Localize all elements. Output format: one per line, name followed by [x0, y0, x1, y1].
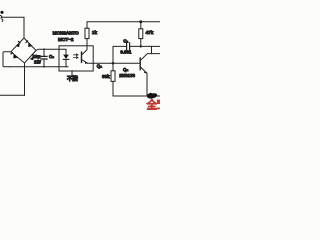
diode D2 (top-right leg)	[25, 40, 32, 47]
resistor R1 1k	[85, 28, 89, 38]
wire: 68k from base line down	[112, 63, 114, 71]
svg-text:C₁: C₁	[123, 39, 128, 44]
svg-text:10μ: 10μ	[33, 54, 41, 59]
svg-text:68k: 68k	[102, 74, 110, 79]
optocoupler U1 box	[59, 46, 93, 71]
wire: rail down to R3 47k	[140, 22, 142, 29]
wire: bridge bottom vertex down to AC2 line	[24, 63, 26, 95]
pin stub below box (unconnected)	[71, 71, 73, 75]
svg-text:不接: 不接	[67, 75, 78, 83]
wire: left vertex loop to ground rail	[3, 52, 11, 67]
diode D1 (top-left leg)	[16, 41, 21, 48]
wire: AC terminal to bridge top	[2, 17, 25, 38]
node: emitter / bottom rail blob	[147, 92, 158, 99]
node: 47k / C1 junction	[140, 45, 142, 47]
svg-text:1k: 1k	[92, 30, 98, 35]
wire: R3 bottom to C1 line	[140, 39, 142, 47]
transistor Q2	[140, 54, 160, 96]
wire: R1 top to V+ rail	[87, 22, 160, 28]
wire: AC2 bottom-left line	[0, 94, 25, 96]
wire: collector tie to 47k/C1 line	[151, 46, 153, 53]
svg-text:1W: 1W	[34, 60, 42, 65]
AC input terminal (left edge)	[0, 11, 3, 22]
node: base line junction	[112, 62, 115, 65]
svg-text:C₂: C₂	[49, 54, 54, 59]
diode D3 (bottom-left leg)	[10, 52, 18, 59]
svg-text:2N3133: 2N3133	[119, 73, 135, 78]
LED inside optocoupler	[59, 49, 69, 66]
svg-text:Q₂: Q₂	[123, 67, 128, 72]
capacitor C1 0.001	[113, 43, 160, 63]
node: rail junction for 47k	[139, 20, 142, 23]
wire: Q1 emitter line to Q2 base	[88, 62, 140, 64]
light arrows	[74, 54, 79, 59]
wire: R2 bottom to bottom rail	[113, 81, 160, 96]
resistor R2 68k	[111, 71, 115, 82]
phototransistor Q1	[82, 46, 88, 64]
svg-text:Q₁: Q₁	[97, 64, 102, 69]
ground rail (DC minus) y=66.7	[10, 66, 68, 68]
wire: Q1 collector up to R1	[86, 39, 88, 46]
red watermark stamp	[146, 99, 161, 112]
capacitor C2 10u	[41, 48, 47, 67]
svg-text:0.001: 0.001	[120, 49, 132, 54]
bridge rectifier diamond	[11, 38, 36, 63]
svg-text:47k: 47k	[146, 30, 154, 35]
svg-text:MCT−2: MCT−2	[58, 37, 74, 42]
wire: bridge right vertex to optocoupler	[36, 49, 59, 50]
resistor R3 47k	[139, 29, 143, 39]
diode D4 (bottom-right leg)	[30, 54, 35, 61]
svg-text:MONSANTO: MONSANTO	[53, 31, 80, 36]
